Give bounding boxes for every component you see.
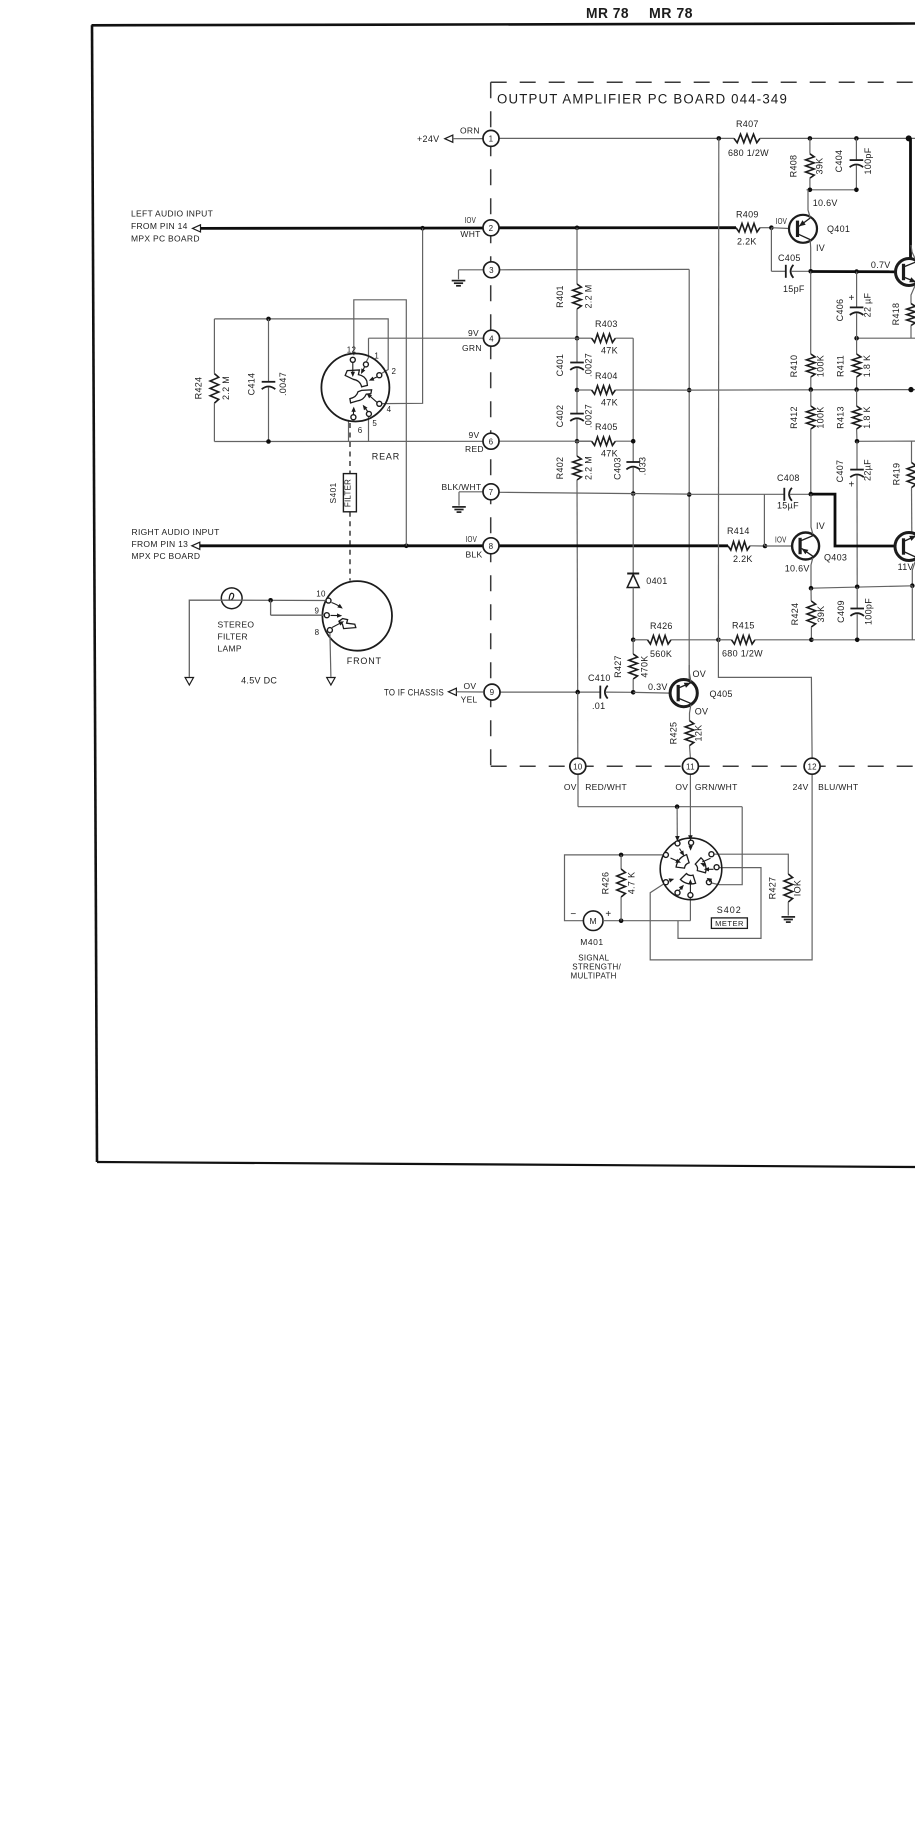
wire terminal 3 to ground [459,270,484,280]
label 680 1/2W R415 [722,649,763,659]
svg-text:1: 1 [489,135,494,144]
label 680 1/2W [728,148,769,158]
label R410 [789,355,799,378]
node C404 bottom [854,188,859,193]
svg-text:STEREO: STEREO [218,620,255,630]
node output collector [906,135,912,141]
svg-text:C405: C405 [778,253,801,263]
wire terminal12 feed [718,640,812,758]
svg-text:WHT: WHT [460,229,480,239]
wire terminal12 down to meter switch [650,774,812,960]
node row692 x633 [631,690,636,695]
capacitor C402 [570,390,584,441]
node row640 R424 [809,638,814,643]
resistor R411 [852,338,861,389]
label OV above Q405 [693,669,707,679]
rear switch pin 6 [351,415,356,420]
wire row494 to C408 [689,493,764,495]
label 12K [694,725,704,742]
wire label ORN [460,126,480,136]
svg-text:11: 11 [686,762,695,771]
node R401 top at row2 [575,226,580,231]
meter switch pin arrows [669,846,714,893]
label R411 [836,355,846,377]
resistor R415 [718,636,811,645]
node right audio tee to rear switch [404,544,409,549]
svg-text:RED: RED [465,444,484,454]
node C406 bottom [854,336,859,341]
wire terminal 3 to x689 corner [500,268,690,270]
svg-text:0401: 0401 [646,576,667,586]
svg-text:R426: R426 [650,621,673,631]
svg-text:METER: METER [715,919,744,928]
transistor Q402 [896,259,915,286]
wire switch right loop [678,868,761,939]
meter switch circle [660,838,722,900]
capacitor C410 [600,686,633,699]
wire base node down to C405 [771,228,785,272]
svg-text:FILTER: FILTER [218,632,248,642]
svg-text:100K: 100K [816,355,826,377]
svg-text:47K: 47K [601,398,618,408]
page border frame [92,24,915,1168]
svg-text:FRONT: FRONT [347,656,382,666]
capacitor C404 [850,138,864,189]
svg-text:C401: C401 [555,354,565,377]
svg-text:9: 9 [315,607,320,616]
svg-text:8: 8 [315,628,320,637]
svg-text:MPX PC BOARD: MPX PC BOARD [132,551,201,561]
svg-text:100K: 100K [816,406,826,428]
Q403 emitter wire [811,558,813,588]
wire rear pin5 drop [368,416,370,441]
node R426 4.7K top [619,853,624,858]
svg-text:SIGNAL: SIGNAL [578,954,609,963]
svg-text:470K: 470K [640,655,650,677]
label 100pF C409 [864,598,874,625]
terminal 6 [483,433,499,449]
resistor R424 39K [807,588,816,640]
label 39K [815,158,825,175]
resistor R403 [577,334,633,343]
svg-text:OV: OV [564,782,577,792]
wire row 338 right [857,337,915,339]
node row588 C409 [855,585,860,590]
wire row640 right [811,639,915,641]
label RED terminal 6 [465,444,484,454]
node row494 junction [809,492,814,497]
svg-text:2.2 M: 2.2 M [221,376,231,400]
svg-text:IOV: IOV [776,216,788,226]
terminal 9 arrow [448,688,456,695]
label IOV at Q401 base [776,216,788,226]
node C406 top [854,269,859,274]
svg-text:R424: R424 [194,377,204,400]
resistor R404 [577,386,689,395]
ground at terminal 7 [452,507,466,512]
node junction +24V at x718 [717,136,722,141]
svg-text:R405: R405 [595,422,618,432]
svg-text:11V: 11V [898,562,914,572]
node row338 x577 [575,336,580,341]
terminal 12 [804,758,820,774]
label R408 [789,155,799,178]
svg-text:8: 8 [489,542,494,551]
svg-text:.01: .01 [592,701,605,711]
node C404 top [854,136,859,141]
label R426 4.7K [601,872,611,895]
label 4.5V DC [241,676,277,686]
node R408 bottom [808,188,813,193]
svg-text:OV: OV [675,782,688,792]
label TO IF CHASSIS [384,688,444,698]
svg-text:YEL: YEL [461,695,478,705]
svg-text:R410: R410 [789,355,799,378]
svg-text:MPX PC BOARD: MPX PC BOARD [131,234,200,244]
rear switch pin 5 [366,411,371,416]
label FILTER lamp [218,632,248,642]
svg-text:R414: R414 [727,526,750,536]
label C402 [555,405,565,428]
label 2.2K R414 [733,554,753,564]
wire terminal 2 to R409 thick [499,226,736,229]
capacitor C408 [764,488,810,501]
front switch wedge [339,619,356,629]
label 470K [640,655,650,677]
rear switch circle [321,354,389,422]
label 9V terminal 4 [468,328,479,338]
svg-text:+: + [849,480,855,491]
svg-text:OUTPUT AMPLIFIER PC BOARD: OUTPUT AMPLIFIER PC BOARD 044-349 [497,92,788,107]
label R404 [595,371,618,381]
svg-text:R407: R407 [736,119,759,129]
wire R408 C404 bottoms to Q401 collector [807,189,857,191]
rear switch wedge upper [345,370,367,387]
meter M401 [583,911,603,931]
label 1.8K R413 [862,406,872,429]
resistor R405 [577,437,633,446]
wire C405 to emitter node [791,270,811,272]
lamp left down arrow [185,678,193,686]
transistor Q405 [670,680,697,707]
label IIV Q404 [898,562,914,572]
svg-text:C414: C414 [247,373,257,396]
node C414 top [266,317,271,322]
svg-text:22µF: 22µF [863,459,873,481]
+24V input label [417,134,439,144]
meter switch wedge 1 [676,855,689,869]
svg-text:4: 4 [387,405,392,414]
label R407 [736,119,759,129]
resistor R426 4.7K [617,855,626,921]
wire to pin 9 [271,600,324,615]
svg-text:C404: C404 [834,150,844,173]
wire x633 from R403 down [632,338,634,462]
meter switch wedge 2 [695,858,706,873]
wire row 441 right [857,440,915,442]
node row441 x633 [631,439,636,444]
wire x633 row494 to diode [632,494,634,574]
label R427 10K [768,877,778,900]
svg-text:Q401: Q401 [827,224,850,234]
svg-text:2.2 M: 2.2 M [584,284,594,308]
resistor R427 470K [629,640,638,693]
node row588 Q403 [809,586,814,591]
svg-text:R424: R424 [790,603,800,626]
dashed outline bottom edge [491,765,915,767]
svg-text:.0027: .0027 [584,404,594,428]
label Q403 [824,553,847,563]
svg-text:S401: S401 [328,482,338,503]
thick elbow collector Q403 to Q404 base [811,494,895,546]
meter switch wedge 3 [680,874,695,884]
label MULTIPATH [571,972,617,981]
svg-text:3: 3 [489,266,494,275]
node row390 x577 [575,388,580,393]
svg-text:15pF: 15pF [783,284,805,294]
label SIGNAL [578,954,609,963]
svg-text:R426: R426 [601,872,611,895]
label R419 [892,463,902,486]
svg-text:BLU/WHT: BLU/WHT [818,782,858,792]
svg-text:R412: R412 [789,406,799,429]
label C409 [836,600,846,623]
svg-text:15µF: 15µF [777,501,799,511]
svg-text:47K: 47K [601,449,618,459]
Q404 emitter wire [912,559,915,586]
terminal 4 [484,330,500,346]
node left audio tee to rear switch [420,226,425,231]
svg-text:9: 9 [490,688,495,697]
label C414 [247,373,257,396]
label R427 470K [613,655,623,678]
label 0.3V [648,682,668,692]
node row640 x633 [631,638,636,643]
label C404 [834,150,844,173]
label STEREO [218,620,255,630]
svg-text:FROM PIN 13: FROM PIN 13 [132,539,189,549]
label R425 [669,722,679,745]
label IV Q403 [816,521,825,531]
wire emitter row 588 [811,586,912,588]
terminal 3 [484,262,500,278]
svg-text:R427: R427 [613,655,623,678]
resistor R407 [734,134,760,143]
label GRN terminal 4 [462,343,482,353]
svg-text:+: + [605,909,611,920]
svg-text:5: 5 [372,419,377,428]
rear switch wedge lower [350,390,372,403]
Q403 collector wire [811,494,813,534]
svg-text:STRENGTH/: STRENGTH/ [572,963,621,972]
svg-text:22 µF: 22 µF [863,292,873,317]
svg-text:R425: R425 [669,722,679,745]
label 10.6V Q403 [785,564,810,574]
resistor R412 [807,390,816,495]
wire terminal 8 to R414 thick [499,544,728,547]
node row441 x577 [575,439,580,444]
resistor R426 560K [633,636,718,645]
label BLK/WHT terminal 7 [442,482,482,492]
wire R414 to Q403 base node [750,545,765,547]
rear switch pin labels [347,346,397,436]
board title OUTPUT AMPLIFIER PC BOARD 044-349 [497,92,788,107]
front switch pin 9 [324,613,329,618]
label M401 [580,937,603,947]
label R424 2.2M [194,377,204,400]
svg-text:7: 7 [489,488,494,497]
node row494 x633 [631,491,636,496]
dashed outline left edge [490,82,492,766]
svg-text:1.8 K: 1.8 K [862,355,872,378]
svg-text:R402: R402 [555,457,565,480]
rear switch pin 1 [363,362,368,367]
thick wire collector Q402 up [909,138,912,258]
wire terminal 4 to R403 [500,337,578,339]
resistor R413 [852,390,861,442]
svg-text:1: 1 [374,352,379,361]
svg-text:9V: 9V [468,328,479,338]
svg-text:IOK: IOK [793,880,803,896]
svg-text:S402: S402 [717,905,742,915]
stereo filter lamp [221,588,242,609]
S401 FILTER box [343,474,356,512]
mech link dashes upper [349,423,351,474]
rear switch top wire [214,319,388,373]
page header text MR 78 MR 78 [586,5,693,22]
svg-text:4.7 K: 4.7 K [627,872,637,895]
svg-text:MR 78: MR 78 [586,5,629,22]
svg-text:4.5V DC: 4.5V DC [241,676,277,686]
label R405 [595,422,618,432]
node x689 at row494 [687,492,692,497]
svg-text:12: 12 [347,346,357,355]
label 100K R412 [816,406,826,428]
svg-text:IOV: IOV [465,215,477,225]
label .0027 C401 [584,353,594,377]
+24V input arrow [445,135,453,142]
node row390 R410 [809,387,814,392]
wire row 390 [689,389,915,392]
svg-text:IOV: IOV [466,534,478,544]
svg-text:10: 10 [316,590,326,599]
svg-text:R418: R418 [891,303,901,326]
wire pin4 link [382,228,422,403]
svg-text:R427: R427 [768,877,778,900]
svg-text:100pF: 100pF [864,598,874,625]
wire arrow to terminal 9 [456,691,483,693]
label 2.2M [221,376,231,400]
Q401 collector wire [808,190,810,218]
wire switch bottom pin drop [689,898,691,921]
svg-text:C402: C402 [555,405,565,428]
label 47K R403 [601,346,618,356]
wire terminal11 down to switch pin [688,774,693,841]
node R408 top [808,136,813,141]
right audio input arrow [192,542,200,549]
label FRONT [347,656,382,666]
label 0401 [646,576,667,586]
terminal 10 [570,758,586,774]
ground R427 [782,917,796,922]
label plus meter [605,909,611,920]
wire x689 vertical [688,269,690,681]
rear pin arrows [351,362,377,414]
svg-text:Q403: Q403 [824,553,847,563]
resistor R425 [685,721,694,758]
label .033 C403 [638,457,648,476]
svg-text:560K: 560K [650,649,672,659]
label C407 [835,460,845,483]
label MPX PC BOARD right [132,551,201,561]
wire terminal 6 to R405 [499,440,592,442]
label R401 [555,285,565,308]
capacitor C414 [262,319,276,442]
node C414 bottom [266,439,271,444]
label IOV terminal 2 [465,215,477,225]
svg-text:47K: 47K [601,346,618,356]
label 9V terminal 6 [469,430,480,440]
label LEFT AUDIO INPUT [131,209,213,219]
svg-text:OV: OV [464,681,477,691]
resistor R408 [806,138,815,189]
wire lamp right to pin10 [232,599,326,601]
svg-text:680 1/2W: 680 1/2W [728,148,769,158]
wire Q403 base [765,545,792,547]
svg-text:IOV: IOV [775,535,787,545]
label 39K [816,606,826,623]
svg-text:BLK: BLK [466,550,483,560]
label .01 C410 [592,701,605,711]
Q402 collector wire [911,245,915,261]
svg-text:.0047: .0047 [278,372,288,396]
wire terminal10 drop [577,692,579,807]
label WHT terminal 2 [460,229,480,239]
transistor Q403 [792,533,819,560]
node row806 [675,804,680,809]
rear switch pin 12 [350,357,355,362]
svg-text:C408: C408 [777,473,800,483]
left audio input arrow [193,225,201,232]
wire Q404 emitter down [911,586,913,640]
capacitor C406 electrolytic [850,272,864,339]
label 22uF C406 [863,292,873,317]
meter switch pins [663,840,719,897]
node row390 right [908,387,913,392]
wire C408 left down to base node [763,494,765,546]
Q401 emitter wire [809,240,812,271]
node Q403 base [763,544,768,549]
label Q401 [827,224,850,234]
svg-text:R419: R419 [892,463,902,486]
label RIGHT AUDIO INPUT [132,527,220,537]
node lamp junction [268,598,273,603]
node row640 x718 [716,638,721,643]
label 0.7V top [871,260,891,270]
front switch pin 8 [327,628,332,633]
wire terminal 7 to ground [459,492,483,506]
label C401 [555,354,565,377]
mech link dashes lower [349,512,351,581]
label .0027 C402 [584,404,594,428]
svg-text:FROM PIN 14: FROM PIN 14 [131,221,188,231]
svg-text:39K: 39K [815,158,825,175]
node Q401 base [769,225,774,230]
label R403 [595,319,618,329]
METER box [711,918,747,929]
label 4.7K [627,872,637,895]
svg-text:C406: C406 [835,299,845,322]
